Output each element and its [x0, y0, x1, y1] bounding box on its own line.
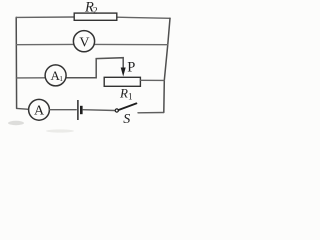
svg-text:1: 1 — [59, 74, 63, 83]
battery cell: short thick plate — [80, 106, 83, 114]
svg-text:A: A — [34, 104, 45, 119]
svg-text:S: S — [123, 112, 130, 127]
wire: left vertical — [15, 17, 17, 108]
battery cell: long thin plate — [77, 100, 79, 120]
ammeter A circle — [29, 99, 50, 120]
wire: top right segment — [117, 17, 170, 18]
ammeter A1 circle — [45, 65, 66, 86]
wire: switch to bottom right corner — [138, 112, 164, 114]
wire: rheostat output to right — [140, 79, 164, 81]
wire: top left segment — [16, 16, 74, 18]
svg-text:2: 2 — [93, 6, 98, 16]
wire: voltmeter row left — [16, 43, 74, 45]
wire: bottom left to ammeter A — [17, 107, 29, 110]
switch blade — [119, 103, 137, 110]
svg-text:R: R — [119, 86, 128, 101]
faint scan smudge bottom-left — [8, 121, 24, 125]
voltmeter V circle — [73, 31, 94, 52]
wire: A to battery — [50, 109, 77, 111]
svg-text:V: V — [79, 35, 89, 50]
wire: ammeter A1 row left — [17, 77, 46, 79]
svg-text:1: 1 — [128, 92, 133, 102]
switch S pivot circle — [115, 109, 118, 112]
resistor R2 box — [74, 13, 117, 20]
wire: right vertical (slightly slanted) — [164, 18, 170, 112]
wire: battery to switch — [83, 109, 115, 112]
wire: A1 to rheostat wiper riser — [66, 58, 123, 78]
wiper arrowhead P — [121, 68, 126, 77]
wire: voltmeter row right — [94, 43, 168, 45]
faint scan smudge bottom-mid — [46, 129, 74, 132]
svg-text:P: P — [127, 59, 135, 75]
rheostat R1 box — [104, 77, 140, 86]
